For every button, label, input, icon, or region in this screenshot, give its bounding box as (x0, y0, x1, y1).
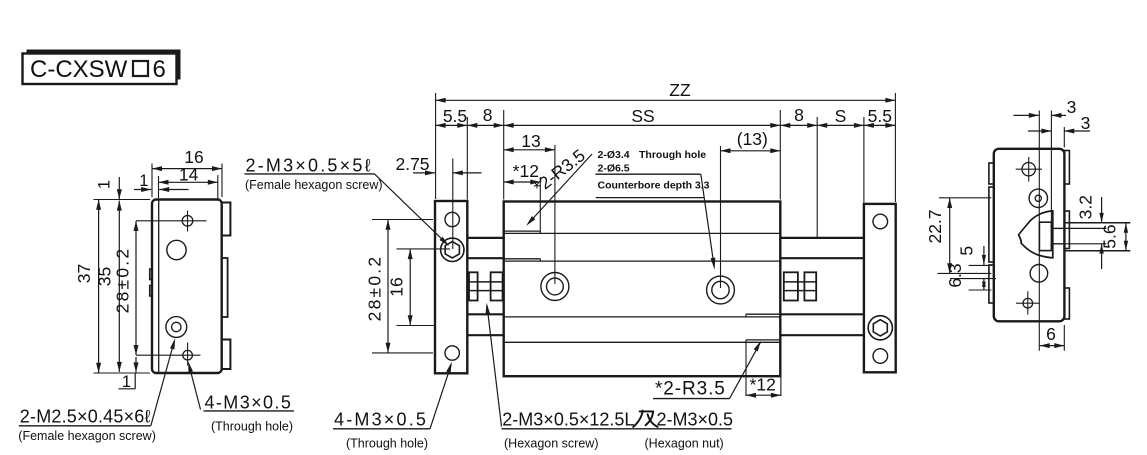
svg-text:37: 37 (74, 264, 94, 283)
dim 3.2 (1076, 195, 1104, 269)
label (Female hexagon screw) (18, 429, 156, 443)
label (Female hexagon screw) main (245, 178, 383, 192)
label (Hexagon screw) (504, 437, 598, 451)
svg-text:Counterbore depth 3.3: Counterbore depth 3.3 (598, 179, 710, 191)
svg-text:2-M2.5×0.45×6ℓ: 2-M2.5×0.45×6ℓ (20, 406, 151, 426)
left coupling block (hexagon screw/nut) (469, 272, 503, 300)
body counterbore hole left (541, 273, 569, 301)
upper bore lines (504, 233, 781, 261)
left view: bottom M3 hole crosshair (136, 343, 201, 366)
svg-text:8: 8 (483, 105, 493, 125)
svg-text:3: 3 (1081, 113, 1091, 133)
svg-text:SS: SS (631, 106, 654, 126)
dim 8 left (467, 105, 503, 128)
leader to left plate hex screw (375, 174, 450, 246)
svg-text:28±0.2: 28±0.2 (113, 247, 133, 314)
svg-text:2-Ø6.5: 2-Ø6.5 (598, 162, 630, 174)
svg-text:(13): (13) (737, 129, 768, 149)
svg-text:35: 35 (95, 267, 115, 286)
svg-text:S: S (835, 106, 847, 126)
title text C-CXSW(square)6 (30, 56, 166, 83)
label 4-M3x0.5 main (333, 409, 430, 429)
dim 1 bottom bracket (119, 373, 136, 391)
svg-text:Through hole: Through hole (639, 149, 706, 161)
R3.5 groove top-left (504, 231, 541, 261)
chain dim extension lines (467, 117, 864, 237)
svg-text:6: 6 (1046, 324, 1056, 344)
right view bottom crosshair hole (1016, 291, 1040, 314)
SS extension under body (504, 110, 781, 200)
leader to left plate bottom hole (430, 362, 452, 429)
dim 37 (74, 200, 101, 373)
ZZ extension lines (436, 93, 896, 202)
left view top extension line (94, 199, 151, 201)
dim 28±0.2 main view (365, 220, 434, 353)
svg-text:(Female hexagon screw): (Female hexagon screw) (18, 429, 156, 443)
right plate bottom hole (873, 349, 888, 364)
label 2-M3x0.5x12.5L and 2-M3x0.5 (502, 409, 734, 429)
label counterbore depth (596, 179, 710, 197)
right view port circle with dot (1029, 189, 1047, 207)
left view: top M3 hole crosshair (136, 211, 207, 232)
right plate top hole (873, 214, 888, 229)
dim *12 bottom (746, 342, 781, 397)
left view: rod hole circle (167, 240, 186, 259)
dim 1 top (plate edge) (134, 172, 189, 192)
dim 3 first (1014, 97, 1077, 222)
svg-text:(Hexagon nut): (Hexagon nut) (645, 437, 724, 451)
svg-text:2-M3×0.5×5ℓ: 2-M3×0.5×5ℓ (246, 155, 373, 175)
left view bottom extension line (94, 372, 151, 374)
svg-text:6.3: 6.3 (945, 263, 965, 287)
svg-text:C-CXSW: C-CXSW (30, 56, 128, 83)
upper piston rod left segment (466, 238, 505, 258)
svg-text:5.5: 5.5 (868, 106, 892, 126)
svg-text:(Through hole): (Through hole) (346, 437, 428, 451)
left view: right side tab top (218, 203, 231, 236)
dim S (817, 106, 864, 128)
svg-text:8: 8 (794, 105, 804, 125)
dim 5 (957, 246, 992, 265)
dim 2.75 (395, 154, 481, 249)
svg-text:2.75: 2.75 (395, 154, 429, 174)
svg-text:(Female hexagon screw): (Female hexagon screw) (245, 178, 383, 192)
svg-text:2-M3×0.5×12.5L: 2-M3×0.5×12.5L (502, 409, 634, 429)
leader to M2.5 hole (151, 338, 175, 426)
dim 1 left vertical (96, 177, 122, 199)
dim ZZ (436, 80, 896, 103)
left plate bottom hole (445, 346, 459, 360)
dim 5.5 left (436, 106, 468, 128)
leader to left coupling block (486, 303, 502, 427)
left view: left notch lower (150, 286, 155, 297)
right view left rail (989, 163, 994, 303)
R3.5 groove bottom-right (746, 314, 780, 342)
svg-text:16: 16 (387, 277, 407, 296)
lower piston rod right segment (779, 314, 865, 335)
leader to right counterbore hole (701, 174, 716, 270)
title box (23, 54, 177, 85)
right end plate (864, 204, 896, 372)
label 2-M2.5x0.45x6l (19, 406, 151, 426)
svg-text:1: 1 (122, 373, 131, 391)
left view: M2.5 screw hole (double circle) (166, 317, 187, 338)
svg-text:3.2: 3.2 (1076, 195, 1096, 219)
svg-text:6: 6 (153, 56, 166, 83)
rod end spade shape (1019, 211, 1053, 258)
right view lower port circle (1030, 265, 1048, 283)
svg-text:2-M3×0.5: 2-M3×0.5 (657, 409, 734, 429)
right view top crosshair hole (1016, 157, 1042, 182)
left view: inner edge line (158, 201, 160, 373)
label (Hexagon nut) (645, 437, 724, 451)
svg-text:4-M3×0.5: 4-M3×0.5 (205, 392, 293, 412)
svg-text:5: 5 (957, 246, 977, 256)
svg-text:28±0.2: 28±0.2 (365, 255, 385, 322)
left view: right side rail middle (218, 258, 228, 317)
dim 35 (95, 201, 122, 372)
label 4-M3x0.5 left view (204, 392, 295, 412)
right view right rail (1064, 151, 1069, 320)
svg-text:*12: *12 (750, 375, 776, 395)
left end plate (435, 201, 467, 373)
right coupling block (hexagon screw/nut) (784, 272, 816, 300)
svg-text:5.6: 5.6 (1099, 224, 1119, 248)
dim 6.3 (945, 263, 996, 290)
lower bore lines (504, 317, 781, 342)
dim 5.6 (1099, 223, 1128, 251)
svg-text:(Hexagon screw): (Hexagon screw) (504, 437, 598, 451)
label (Through hole) main (346, 437, 428, 451)
dim 16 main view (387, 249, 451, 326)
right view body outline (994, 149, 1065, 321)
left plate top hole (445, 212, 459, 226)
svg-text:1: 1 (139, 172, 148, 190)
svg-text:1: 1 (96, 180, 114, 189)
left plate hexagon socket screw (441, 238, 464, 261)
dim 22.7 (925, 198, 991, 274)
dim *12 top (504, 161, 541, 231)
dim 16 extension lines (152, 164, 222, 198)
svg-text:5.5: 5.5 (443, 106, 467, 126)
svg-text:*2-R3.5: *2-R3.5 (655, 378, 726, 399)
label 2-D3.4 through hole (595, 149, 706, 175)
dim 5.5 right (864, 106, 896, 128)
dim 28±0.2 left view (113, 221, 139, 372)
dim 14 (159, 165, 218, 185)
left view: right side tab bottom (218, 340, 231, 370)
dim (13) (721, 129, 781, 288)
svg-text:(Through hole): (Through hole) (211, 420, 293, 434)
left view: body outline (152, 200, 222, 374)
cylinder body (504, 202, 781, 377)
rotated label *2-R3.5 top (526, 145, 592, 226)
label (Through hole) left view (211, 420, 293, 434)
leader to bottom M3 hole left view (188, 361, 200, 409)
left view: left notch upper (150, 269, 155, 280)
svg-text:3: 3 (1067, 97, 1077, 117)
svg-text:2-Ø3.4: 2-Ø3.4 (598, 149, 630, 161)
dim SS (504, 106, 781, 128)
svg-text:14: 14 (179, 165, 199, 185)
body counterbore hole right (707, 276, 735, 304)
dim 13 (504, 131, 555, 284)
dim 6 (1040, 324, 1065, 351)
label *2-R3.5 bottom (653, 341, 761, 400)
dim 3 second (1028, 113, 1090, 147)
upper piston rod right segment (779, 238, 865, 258)
dim 8 right (780, 105, 817, 128)
rod shaft lines right (1064, 223, 1130, 251)
lower piston rod left segment (466, 314, 505, 335)
dim 14 extension line (159, 175, 218, 199)
dim 16 (152, 147, 222, 171)
svg-text:22.7: 22.7 (925, 209, 945, 243)
title box shadow (27, 50, 181, 80)
svg-text:13: 13 (521, 131, 540, 151)
label 2-M3x0.5x5l (245, 155, 375, 175)
svg-text:ZZ: ZZ (669, 80, 691, 100)
svg-text:4-M3×0.5: 4-M3×0.5 (334, 409, 428, 429)
right plate hexagon nut (868, 316, 892, 340)
right view long centerline (1038, 111, 1040, 351)
rod cross-section rectangle (1039, 222, 1064, 250)
